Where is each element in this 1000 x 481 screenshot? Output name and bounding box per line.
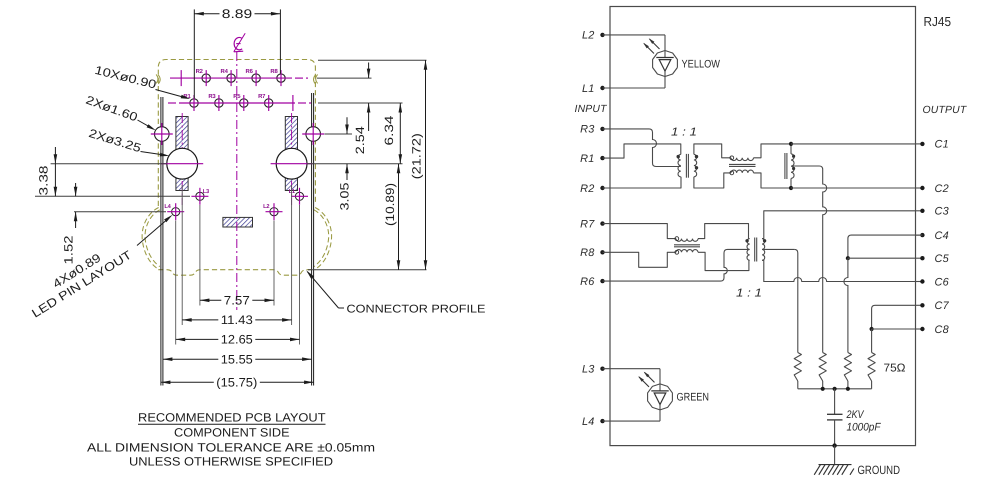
hole 1.60 <box>302 123 324 145</box>
input pin L1 <box>582 83 605 95</box>
wire T1 secondary top to choke <box>694 144 731 158</box>
wire choke2 top to T2 primary top <box>698 224 749 239</box>
svg-text:R7: R7 <box>258 93 266 100</box>
extension lines left <box>51 163 167 165</box>
svg-text:12.65: 12.65 <box>221 333 253 347</box>
pin R1 crosshair and label <box>183 93 194 111</box>
input pin R2 <box>580 183 605 195</box>
label 10X dia 0.90 with leader <box>93 63 190 99</box>
pin hole R1 <box>190 99 198 107</box>
dim 8.89 <box>194 7 280 98</box>
pin R8 crosshair and label <box>270 68 281 86</box>
label 2X dia 3.25 with leader <box>87 126 169 156</box>
wire C8 <box>872 328 916 330</box>
output pin C2 <box>916 183 949 195</box>
label CONNECTOR PROFILE with leader <box>306 270 486 315</box>
dim 6.34 <box>382 103 402 164</box>
svg-text:R8: R8 <box>270 68 278 75</box>
wire R8 to choke2 <box>603 252 677 267</box>
svg-text:8.89: 8.89 <box>222 7 253 21</box>
title text block <box>87 410 375 468</box>
dim 2.54 <box>353 63 370 155</box>
svg-text:(15.75): (15.75) <box>216 376 257 390</box>
label 4X dia 0.89 LED PIN LAYOUT with leader <box>29 215 172 321</box>
hole 3.25 <box>271 148 313 179</box>
connector outline (dashed) <box>156 60 318 207</box>
svg-text:C7: C7 <box>935 300 950 312</box>
svg-text:C2: C2 <box>935 183 949 195</box>
pin hole R7 <box>265 99 273 107</box>
ground symbol <box>814 465 854 475</box>
pin hole R8 <box>277 74 285 82</box>
slot centerlines magenta <box>181 113 183 205</box>
svg-text:R3: R3 <box>580 124 594 136</box>
dim 11.43 <box>182 313 291 327</box>
wire R7 to choke2 <box>603 224 677 239</box>
dim (10.89) <box>383 164 400 270</box>
svg-text:C5: C5 <box>935 253 950 265</box>
label 2X dia 1.60 with leader <box>84 93 156 131</box>
output pin C4 <box>916 230 949 242</box>
wire C7/C8 junction down to 75ohm resistor <box>871 329 873 353</box>
svg-text:1000pF: 1000pF <box>847 422 882 434</box>
svg-text:(21.72): (21.72) <box>409 133 423 179</box>
pin hole R3 <box>215 99 223 107</box>
svg-text:L1: L1 <box>582 83 595 95</box>
dim (21.72) <box>409 60 427 270</box>
autotransformer winding <box>791 154 794 179</box>
dim 15.55 <box>163 353 312 367</box>
svg-text:R4: R4 <box>221 68 229 75</box>
output pin C8 <box>916 324 949 336</box>
svg-text:UNLESS OTHERWISE SPECIFIED: UNLESS OTHERWISE SPECIFIED <box>129 455 333 469</box>
svg-text:ALL DIMENSION TOLERANCE ARE ±0: ALL DIMENSION TOLERANCE ARE ±0.05mm <box>87 440 375 454</box>
output pin C5 <box>916 253 950 265</box>
dim (15.75) <box>161 376 314 390</box>
svg-text:L4: L4 <box>582 416 595 428</box>
output pin C3 <box>916 206 949 218</box>
resistor R1 termination <box>794 353 801 382</box>
svg-text:15.55: 15.55 <box>221 353 253 367</box>
wire C4/C5 junction down to R3 resistor column (hop over C6) <box>844 258 848 352</box>
choke2 top winding <box>676 239 698 242</box>
PCB body outline left <box>160 97 162 386</box>
svg-text:L2: L2 <box>263 204 269 210</box>
pin R4 crosshair and label <box>221 68 232 86</box>
svg-text:11.43: 11.43 <box>221 313 253 327</box>
connector profile ears (dashed arcs) <box>142 208 331 270</box>
svg-text:L3: L3 <box>582 364 595 376</box>
transformer T1 secondary winding <box>694 154 697 176</box>
input pin L3 <box>582 364 605 376</box>
svg-text:RJ45: RJ45 <box>924 14 952 29</box>
svg-text:R6: R6 <box>580 276 595 288</box>
pin R6 crosshair and label <box>246 68 257 86</box>
common mode choke bottom winding <box>731 170 754 173</box>
extension lines right <box>318 59 427 61</box>
wire R3 to transformer T1 center tap <box>603 129 681 167</box>
center slot (hatched) <box>223 217 253 227</box>
svg-text:3.38: 3.38 <box>37 165 51 195</box>
svg-text:GROUND: GROUND <box>858 463 901 477</box>
mounting slot left (hatched) <box>176 117 188 191</box>
hole 3.25 <box>161 148 203 179</box>
bottom extension lines <box>199 205 201 306</box>
capacitor C 2KV 1000pF <box>827 389 843 446</box>
wire autotransformer center tap to R2 resistor column <box>791 166 827 353</box>
wire choke2 bottom to T2 primary bottom <box>698 252 749 270</box>
svg-text:2.54: 2.54 <box>353 126 367 154</box>
input pin L4 <box>582 416 605 428</box>
svg-text:L2: L2 <box>582 30 595 42</box>
svg-text:1 : 1: 1 : 1 <box>671 126 697 138</box>
svg-text:6.34: 6.34 <box>382 115 396 145</box>
choke2 bottom winding <box>676 250 698 253</box>
resistor R2 termination <box>819 353 826 382</box>
transformer T1 primary winding <box>678 154 681 176</box>
svg-text:L3: L3 <box>203 189 209 195</box>
transformer T2 core <box>754 238 756 262</box>
wire T2 secondary bottom to C6 (hops over resistor columns) <box>762 260 916 281</box>
svg-text:L4: L4 <box>164 204 171 210</box>
input pin R8 <box>580 247 605 259</box>
pin row line R2-R8 <box>170 77 292 79</box>
svg-text:2KV: 2KV <box>846 409 865 421</box>
dim 3.38 <box>37 147 58 196</box>
input pin R7 <box>580 218 605 230</box>
svg-text:C6: C6 <box>935 276 950 288</box>
hole 1.60 <box>151 123 173 145</box>
input pin R1 <box>580 153 605 165</box>
svg-text:R8: R8 <box>580 247 594 259</box>
wire R6 to T2 primary center tap (hop over wire) <box>603 249 749 281</box>
svg-text:CONNECTOR PROFILE: CONNECTOR PROFILE <box>347 303 487 315</box>
svg-text:R5: R5 <box>233 93 241 100</box>
node C1 junction <box>789 142 793 146</box>
input pin R6 <box>580 276 605 288</box>
wire C5 <box>848 257 916 259</box>
svg-text:R3: R3 <box>208 93 216 100</box>
pin hole R6 <box>252 74 260 82</box>
choke2 core <box>674 244 700 246</box>
resistor R4 termination <box>868 353 875 382</box>
PCB body outline right <box>311 93 313 386</box>
LED green <box>603 369 673 421</box>
output pin C1 <box>916 139 949 151</box>
wire T2 secondary top to C3 <box>762 211 916 239</box>
svg-text:R6: R6 <box>246 68 254 75</box>
wire choke top to C1 node <box>754 144 792 158</box>
wire R1 to transformer T1 primary top <box>603 144 681 158</box>
svg-text:(10.89): (10.89) <box>383 183 397 226</box>
input pin R3 <box>580 124 605 136</box>
pin R3 crosshair and label <box>208 93 219 111</box>
wire R2 to transformer T1 primary bottom <box>603 177 682 188</box>
LED pin L1 <box>289 188 308 205</box>
pin hole R4 <box>227 74 235 82</box>
LED yellow <box>603 35 678 88</box>
bus junction dots <box>821 387 825 391</box>
input pin L2 <box>582 30 605 42</box>
vertical centerline <box>236 52 238 310</box>
output pin C7 <box>916 300 950 312</box>
LED pin L2 <box>263 203 282 220</box>
wire choke bottom to C2 node <box>754 173 792 188</box>
svg-text:OUTPUT: OUTPUT <box>923 105 967 116</box>
svg-text:RECOMMENDED PCB LAYOUT: RECOMMENDED PCB LAYOUT <box>138 410 326 424</box>
svg-text:R1: R1 <box>580 153 594 165</box>
autotransformer core <box>784 153 786 179</box>
node C2 junction <box>789 186 793 190</box>
pin R7 crosshair and label <box>258 93 269 111</box>
pin hole R2 <box>202 74 210 82</box>
dim 7.57 <box>200 294 274 308</box>
svg-text:YELLOW: YELLOW <box>682 58 721 70</box>
transformer T2 secondary winding <box>762 239 765 261</box>
common mode choke core <box>729 163 756 165</box>
svg-text:C3: C3 <box>935 206 949 218</box>
node C8 junction <box>870 327 874 331</box>
svg-text:C8: C8 <box>935 324 949 336</box>
wire C1 <box>791 143 916 145</box>
wire C2 <box>791 187 916 189</box>
svg-text:1.52: 1.52 <box>62 235 76 264</box>
dim 3.05 <box>338 117 352 210</box>
wire C7 <box>872 305 916 329</box>
dim 1.52 <box>62 183 78 265</box>
termination bus wire <box>798 388 872 390</box>
svg-text:GREEN: GREEN <box>677 392 710 404</box>
pin hole R5 <box>240 99 248 107</box>
node C5 junction <box>846 256 850 260</box>
transformer T2 primary winding <box>747 239 750 261</box>
centerline symbol <box>234 33 245 52</box>
pin row line R1-R7 <box>168 102 176 104</box>
svg-text:R2: R2 <box>196 68 204 75</box>
pin R2 crosshair and label <box>196 68 207 86</box>
transformer T1 core <box>685 154 687 178</box>
wire to ground <box>834 446 836 465</box>
LED pin L3 <box>191 188 209 205</box>
common mode choke top winding <box>731 158 754 161</box>
svg-text:C4: C4 <box>935 230 949 242</box>
svg-text:75Ω: 75Ω <box>884 363 906 375</box>
dim 12.65 <box>176 333 300 347</box>
svg-text:R2: R2 <box>580 183 594 195</box>
resistor R3 termination <box>844 353 851 382</box>
schematic enclosure box RJ45 <box>610 7 916 446</box>
svg-text:7.57: 7.57 <box>224 294 250 308</box>
node ground junction <box>832 443 836 447</box>
svg-text:R7: R7 <box>580 218 595 230</box>
svg-text:C1: C1 <box>935 139 949 151</box>
svg-text:3.05: 3.05 <box>338 182 352 210</box>
wire C4 <box>916 234 923 236</box>
svg-text:1 : 1: 1 : 1 <box>736 288 762 300</box>
LED pin L4 <box>164 203 184 220</box>
svg-text:INPUT: INPUT <box>575 104 608 115</box>
svg-text:COMPONENT SIDE: COMPONENT SIDE <box>174 426 290 440</box>
output pin C6 <box>916 276 950 288</box>
pin R5 crosshair and label <box>233 93 244 111</box>
wire T1 secondary bottom to choke <box>694 173 731 188</box>
mounting slot right (hatched) <box>285 117 297 191</box>
connector profile bottom dashed line with latch notches <box>158 270 315 276</box>
wire T2 secondary center tap to R1 resistor column <box>762 248 794 250</box>
